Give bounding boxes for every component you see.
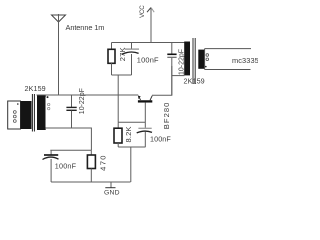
- svg-text:470: 470: [99, 154, 108, 171]
- antenna A1: [52, 14, 66, 95]
- label 470: [99, 154, 108, 171]
- VCC supply: [147, 8, 154, 43]
- transformer T1 2K159: [8, 94, 50, 132]
- label Antenne 1m: [66, 23, 105, 32]
- capacitor C3 100nF: [43, 150, 59, 182]
- svg-text:GND: GND: [104, 190, 120, 196]
- wire bias bottom rail: [112, 74, 132, 76]
- svg-text:2K159: 2K159: [184, 77, 205, 86]
- svg-text:mc3335: mc3335: [232, 56, 258, 65]
- wire tuned circuit bottom: [46, 128, 92, 150]
- svg-text:8.2K: 8.2K: [124, 126, 133, 142]
- svg-text:100nF: 100nF: [150, 134, 171, 143]
- label 100nF mid: [150, 134, 171, 143]
- wire ground rail: [51, 181, 130, 183]
- wire emitter cell bottom: [118, 146, 145, 148]
- ground GND: [105, 182, 115, 188]
- resistor R3 8.2K: [114, 122, 122, 147]
- wire emitter RC top: [50, 149, 91, 151]
- label 2K159 left: [25, 84, 46, 93]
- label 100nF: [137, 55, 159, 64]
- wire bias to base: [117, 75, 119, 122]
- label 10-22pF right: [178, 49, 185, 75]
- capacitor C1 100nF: [122, 43, 139, 76]
- svg-text:100nF: 100nF: [137, 55, 159, 64]
- label GND: [104, 190, 120, 197]
- wire VCC rail: [112, 42, 186, 44]
- svg-text:Antenne 1m: Antenne 1m: [66, 23, 105, 32]
- wire emitter node: [37, 94, 139, 96]
- capacitor C5 coupling: [167, 43, 176, 96]
- label 10-22pF left: [79, 88, 86, 114]
- svg-text:VCC: VCC: [139, 5, 146, 18]
- resistor R2 470: [87, 150, 95, 182]
- wire collector: [152, 66, 172, 95]
- label BF280: [162, 102, 171, 130]
- variable capacitor C2 10-22pF: [66, 95, 76, 128]
- svg-text:BF280: BF280: [162, 102, 171, 130]
- label 100nF bottom-left: [55, 162, 77, 171]
- wire collector rail: [172, 75, 185, 77]
- capacitor C4 100nF: [137, 122, 152, 147]
- label 27K: [118, 47, 127, 61]
- label 2K159 right: [184, 77, 205, 86]
- transistor Q1 BF280: [138, 96, 152, 123]
- label 8.2K: [124, 126, 133, 142]
- wire to ground: [130, 147, 132, 182]
- wire base rail: [118, 121, 145, 123]
- label VCC: [139, 5, 146, 18]
- svg-text:100nF: 100nF: [55, 162, 77, 171]
- svg-text:10-22pF: 10-22pF: [79, 88, 86, 114]
- resistor R1 27K: [108, 43, 115, 76]
- transformer T2 2K159: [184, 38, 251, 84]
- label mc3335: [232, 56, 259, 65]
- svg-text:2K159: 2K159: [25, 84, 46, 93]
